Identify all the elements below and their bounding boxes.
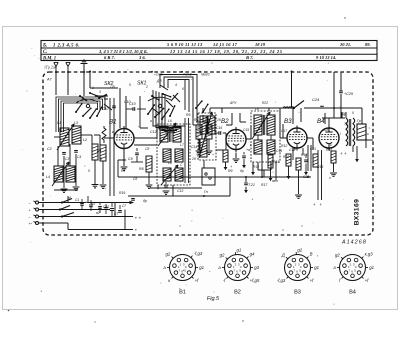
svg-text:СВ: СВ: [110, 85, 115, 89]
svg-text:С3: С3: [65, 157, 69, 161]
svg-text:g1: g1: [199, 265, 204, 270]
svg-text:В2: В2: [221, 118, 229, 125]
svg-text:Гр: Гр: [357, 119, 361, 123]
svg-text:С22: С22: [303, 175, 309, 179]
svg-text:L8: L8: [168, 161, 172, 165]
svg-text:+: +: [196, 153, 198, 157]
svg-text:+а: +а: [246, 148, 250, 152]
svg-text:В4: В4: [317, 118, 325, 125]
svg-text:9 10 13 14.: 9 10 13 14.: [316, 55, 336, 60]
svg-text:g4: g4: [250, 252, 255, 257]
svg-text:R10: R10: [283, 155, 289, 159]
svg-text:С17: С17: [281, 129, 287, 133]
svg-text:89.: 89.: [365, 42, 371, 47]
svg-text:g3: g3: [254, 265, 259, 270]
svg-text:g1: g1: [237, 247, 242, 252]
svg-text:ДВ: ДВ: [156, 79, 162, 83]
svg-text:Д: Д: [281, 252, 285, 257]
svg-text:1: 1: [92, 86, 94, 90]
svg-text:Т.21: Т.21: [248, 183, 255, 187]
svg-text:В1: В1: [109, 119, 117, 126]
svg-text:L6: L6: [168, 119, 172, 123]
svg-text:II: II: [352, 111, 354, 115]
svg-text:L4: L4: [46, 175, 50, 179]
svg-text:+: +: [212, 153, 214, 157]
svg-text:R16: R16: [326, 148, 332, 152]
svg-text:+f,g5: +f,g5: [250, 278, 260, 283]
svg-text:-f,g3: -f,g3: [194, 251, 203, 256]
svg-text:В3: В3: [294, 290, 301, 296]
svg-text:18 19: 18 19: [255, 42, 266, 47]
svg-text:1Гр 2ан: 1Гр 2ан: [44, 66, 57, 70]
svg-text:+: +: [29, 209, 31, 213]
svg-text:L1: L1: [57, 121, 61, 125]
svg-text:Тр: Тр: [344, 122, 348, 126]
svg-text:В3: В3: [284, 118, 292, 125]
svg-text:R17: R17: [261, 183, 267, 187]
svg-text:А7: А7: [46, 78, 53, 82]
svg-text:к,g3: к,g3: [365, 252, 374, 257]
svg-text:А14268: А14268: [341, 240, 367, 246]
svg-text:14 15 16 17: 14 15 16 17: [213, 42, 238, 47]
svg-text:С12: С12: [150, 130, 157, 134]
svg-text:3 6.: 3 6.: [138, 55, 146, 60]
svg-text:R14: R14: [253, 165, 259, 169]
svg-text:+ +: + +: [340, 151, 347, 156]
svg-text:в2: в2: [96, 211, 100, 215]
svg-text:Гн: Гн: [204, 190, 208, 194]
svg-text:В4: В4: [349, 290, 356, 296]
svg-text:С13: С13: [177, 189, 183, 193]
svg-text:R19: R19: [119, 191, 125, 195]
svg-text:6: 6: [100, 157, 102, 161]
svg-text:В: В: [310, 252, 313, 257]
svg-text:L3: L3: [74, 121, 78, 125]
svg-text:С16: С16: [216, 126, 222, 130]
svg-text:С9: С9: [128, 157, 133, 161]
svg-text:С14: С14: [191, 145, 197, 149]
svg-text:С7: С7: [122, 204, 126, 208]
svg-text:6 В 7.: 6 В 7.: [104, 55, 115, 60]
svg-text:g2: g2: [297, 247, 302, 252]
svg-text:ВХ3169: ВХ3169: [354, 199, 361, 226]
svg-text:2: 2: [145, 85, 148, 89]
svg-text:В2: В2: [234, 290, 241, 296]
svg-text:g2: g2: [220, 253, 225, 258]
svg-text:5: 5: [88, 169, 90, 173]
svg-text:а: а: [150, 119, 152, 123]
svg-text:С15: С15: [243, 128, 249, 132]
svg-text:R3: R3: [121, 169, 125, 173]
svg-text:R9: R9: [228, 169, 233, 173]
svg-text:4: 4: [175, 83, 177, 87]
svg-text:+ +: + +: [135, 216, 142, 221]
svg-text:5: 5: [129, 83, 131, 87]
svg-text:20 21.: 20 21.: [339, 42, 351, 47]
svg-text:С19: С19: [276, 149, 282, 153]
svg-text:АРУ: АРУ: [229, 101, 237, 105]
svg-text:R12: R12: [281, 144, 287, 148]
svg-text:1 2,3 4,5 6.: 1 2,3 4,5 6.: [53, 44, 80, 49]
svg-text:в1: в1: [68, 196, 72, 200]
svg-text:С10: С10: [129, 102, 136, 106]
svg-text:С4: С4: [77, 155, 81, 159]
svg-text:6: 6: [182, 87, 184, 91]
svg-text:R13: R13: [301, 153, 307, 157]
svg-text:+: +: [135, 228, 138, 233]
svg-text:+: +: [104, 187, 106, 191]
svg-text:R6: R6: [139, 167, 144, 171]
svg-text:В 7.: В 7.: [245, 55, 254, 60]
svg-text:3, 4 5 7 21 8 1 1/2, 10 Д Б.: 3, 4 5 7 21 8 1 1/2, 10 Д Б.: [98, 49, 148, 54]
svg-text:С6: С6: [133, 177, 137, 181]
svg-text:R5: R5: [186, 113, 191, 117]
svg-text:С1: С1: [75, 198, 79, 202]
svg-text:-f,g3: -f,g3: [277, 278, 286, 283]
svg-text:В1: В1: [179, 290, 186, 296]
svg-text:С10: С10: [102, 107, 108, 111]
svg-text:g1: g1: [369, 265, 374, 270]
svg-text:3: 3: [99, 90, 101, 94]
svg-text:д: д: [294, 147, 296, 151]
svg-text:др: др: [143, 199, 147, 203]
svg-text:С21: С21: [310, 147, 316, 151]
svg-text:Fig.5: Fig.5: [207, 296, 220, 302]
svg-text:+С29: +С29: [344, 92, 353, 96]
svg-text:g1: g1: [314, 265, 319, 270]
svg-text:С26: С26: [323, 128, 329, 132]
svg-text:g2: g2: [166, 252, 171, 257]
svg-text:зет: зет: [271, 179, 278, 183]
svg-text:+: +: [157, 187, 159, 191]
svg-text:R22: R22: [262, 101, 268, 105]
svg-text:L7: L7: [180, 143, 184, 147]
svg-text:№л/2: №л/2: [201, 72, 210, 76]
svg-text:С2: С2: [47, 147, 52, 151]
svg-text:С24: С24: [312, 97, 320, 102]
svg-text:L2: L2: [83, 138, 87, 142]
svg-text:С.: С.: [43, 50, 48, 55]
svg-text:С8: С8: [145, 147, 149, 151]
svg-text:I: I: [340, 132, 341, 136]
svg-text:+: +: [29, 222, 31, 226]
svg-text:др: др: [240, 169, 244, 173]
svg-text:g2: g2: [335, 252, 340, 257]
svg-text:5 6 9 10 11 12 13: 5 6 9 10 11 12 13: [167, 42, 203, 47]
svg-text:2д: 2д: [191, 157, 196, 161]
svg-text:Б.: Б.: [42, 44, 47, 49]
svg-text:В.М. 1: В.М. 1: [42, 56, 56, 61]
svg-text:12 13 14 15 16 17 18, 19, 20,: 12 13 14 15 16 17 18, 19, 20, 21, 22, 23…: [170, 49, 283, 54]
